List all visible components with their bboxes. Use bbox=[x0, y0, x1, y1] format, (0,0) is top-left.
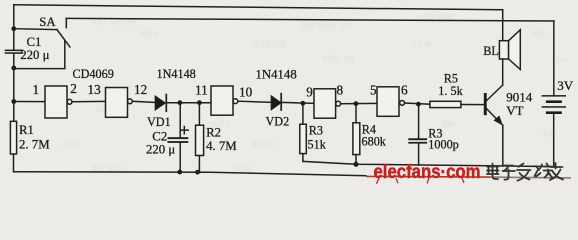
pin 6 bbox=[401, 83, 408, 98]
svg-text:8Wv: 8Wv bbox=[140, 29, 158, 39]
switch SA blade bbox=[57, 30, 70, 47]
svg-text:8W: 8W bbox=[442, 119, 456, 129]
capacitor C2 electrolytic plates bbox=[168, 137, 189, 143]
svg-text:W3A 8M: W3A 8M bbox=[252, 39, 286, 49]
svg-text:2. 7M: 2. 7M bbox=[19, 137, 50, 151]
resistor R2 body bbox=[196, 125, 204, 155]
label C2 bbox=[152, 130, 167, 144]
wire top rail T1 from left rail to speaker bbox=[14, 5, 503, 10]
wire bottom ground bus bbox=[14, 172, 367, 176]
capacitor C2 plus polarity mark bbox=[180, 127, 188, 134]
inverter U1D box pins 9-8 bbox=[314, 89, 336, 118]
svg-text:8A W: 8A W bbox=[412, 39, 434, 49]
wire speaker bottom to collector bbox=[502, 59, 504, 85]
op-amp inverter U1A box pins 1-2 bbox=[45, 86, 67, 118]
inverter U1E output bubble bbox=[400, 101, 405, 106]
svg-text:12: 12 bbox=[134, 82, 147, 97]
label VD1 bbox=[147, 115, 171, 129]
label CD4069 bbox=[73, 67, 114, 81]
value C1 220u bbox=[20, 48, 49, 62]
pin 10 bbox=[239, 84, 253, 99]
value R2 4.7M bbox=[206, 139, 237, 153]
wire left rail upper segment bbox=[13, 5, 15, 50]
wire switch blade to node below C1 bbox=[14, 41, 65, 68]
inverter U1E box pins 5-6 bbox=[377, 87, 399, 117]
svg-text:4. 7M: 4. 7M bbox=[206, 139, 237, 153]
label C1 bbox=[27, 35, 42, 49]
svg-text:W8: W8 bbox=[532, 29, 545, 39]
inverter U1D output bubble bbox=[336, 101, 341, 106]
wire U1B pin12 to diode VD1 bbox=[132, 101, 155, 102]
wire VD1 cathode to U1C pin11 bbox=[166, 102, 211, 104]
pin 9 bbox=[306, 85, 313, 100]
wire U1A pin2 to U1B pin13 bbox=[72, 100, 106, 102]
label 1N4148 first bbox=[157, 67, 196, 81]
value R3 51k bbox=[308, 138, 327, 152]
label battery 3V bbox=[557, 78, 574, 93]
junction node C2 bottom on bus bbox=[177, 170, 182, 175]
diode VD1 1N4148 bbox=[155, 95, 166, 112]
resistor R3 51k top lead bbox=[302, 103, 304, 124]
value 1000p bbox=[428, 138, 458, 152]
resistor R5 body bbox=[430, 101, 461, 107]
label switch SA bbox=[39, 15, 56, 29]
svg-text:8WA 3: 8WA 3 bbox=[252, 139, 277, 149]
pin 8 bbox=[337, 83, 344, 98]
resistor R1 body bbox=[10, 121, 16, 154]
junction node on rail at switch feed bbox=[11, 26, 16, 31]
svg-text:R3: R3 bbox=[309, 124, 323, 138]
svg-text:680k: 680k bbox=[362, 134, 387, 148]
svg-text:8w: 8w bbox=[556, 54, 568, 64]
diode VD2 1N4148 bbox=[271, 94, 281, 110]
wire VD2 cathode to U1D pin9 bbox=[281, 101, 314, 104]
label VD2 bbox=[266, 114, 290, 128]
transistor VT base bar bbox=[484, 93, 487, 115]
label transistor 9014 bbox=[506, 90, 533, 105]
svg-text:5: 5 bbox=[370, 83, 377, 98]
svg-text:220 μ: 220 μ bbox=[20, 48, 49, 62]
svg-text:VT: VT bbox=[506, 103, 523, 118]
value R5 1.5k bbox=[438, 84, 463, 98]
svg-text:M8 VA8: M8 VA8 bbox=[422, 13, 453, 23]
speaker BL driver box bbox=[499, 41, 508, 59]
switch SA fixed contact stub bbox=[65, 18, 67, 27]
capacitor C2 top lead bbox=[179, 103, 181, 138]
pin 1 bbox=[33, 82, 40, 97]
pin 13 bbox=[88, 82, 102, 97]
svg-text:C1: C1 bbox=[27, 35, 42, 49]
junction node R4 top bbox=[354, 101, 359, 106]
svg-text:R1: R1 bbox=[19, 123, 34, 137]
wire battery bottom lead bbox=[553, 114, 555, 167]
wire node A to gate U1A input pin 1 bbox=[14, 101, 45, 103]
svg-text:10: 10 bbox=[239, 84, 253, 99]
svg-text:8: 8 bbox=[337, 83, 344, 98]
resistor R3 51k body bbox=[300, 124, 307, 153]
junction node C3 top bbox=[416, 102, 421, 107]
label R4 bbox=[362, 123, 376, 137]
inverter U1A output bubble bbox=[67, 99, 72, 104]
svg-text:AW8: AW8 bbox=[62, 139, 81, 149]
svg-text:51k: 51k bbox=[308, 138, 327, 152]
label R5 bbox=[444, 72, 458, 86]
label speaker BL bbox=[483, 44, 499, 58]
capacitor C1 plates bbox=[5, 50, 24, 54]
resistor R4 680k body bbox=[353, 123, 360, 155]
junction node R3 top bbox=[301, 101, 306, 106]
svg-text:VD1: VD1 bbox=[147, 115, 171, 129]
label VT bbox=[506, 103, 523, 118]
junction node below C1 bbox=[11, 66, 16, 71]
watermark strike line bbox=[366, 176, 571, 178]
wire emitter to lower net bbox=[502, 125, 504, 166]
svg-text:1N4148: 1N4148 bbox=[157, 67, 196, 81]
svg-text:6: 6 bbox=[401, 83, 408, 98]
capacitor C3 bottom lead bbox=[418, 144, 420, 166]
pin 2 bbox=[70, 81, 77, 96]
pin 5 bbox=[370, 83, 377, 98]
resistor R4 680k bottom lead bbox=[355, 155, 357, 165]
junction node R2 top bbox=[197, 100, 202, 105]
inverter U1C output bubble bbox=[233, 99, 238, 104]
watermark elecfans.com bbox=[374, 162, 481, 184]
wire battery top lead bbox=[553, 21, 555, 95]
wire U1D pin8 to U1E pin5 bbox=[341, 102, 377, 104]
svg-text:220 μ: 220 μ bbox=[146, 142, 175, 156]
resistor R2 bottom lead bbox=[198, 156, 200, 173]
resistor R4 680k top lead bbox=[355, 104, 357, 123]
junction node at pin1 wire bbox=[11, 99, 16, 104]
svg-text:3V: 3V bbox=[557, 78, 574, 93]
svg-text:CD4069: CD4069 bbox=[73, 67, 114, 81]
svg-text:1. 5k: 1. 5k bbox=[438, 84, 463, 98]
svg-text:9: 9 bbox=[306, 85, 313, 100]
pin 12 bbox=[134, 82, 147, 97]
junction node R4 bottom on lower net bbox=[354, 162, 359, 167]
value C2 220u bbox=[146, 142, 175, 156]
junction node C2 top bbox=[178, 100, 183, 105]
wire top rail T2 from switch to battery positive bbox=[66, 18, 554, 21]
watermark chinese characters bbox=[487, 163, 563, 181]
svg-text:MV8 A3: MV8 A3 bbox=[322, 54, 354, 64]
svg-text:BL: BL bbox=[483, 44, 499, 58]
svg-text:SA: SA bbox=[39, 15, 56, 29]
wire speaker top lead bbox=[502, 10, 504, 41]
wire R1 bottom lead to ground bus bbox=[13, 154, 15, 172]
svg-text:1N4148: 1N4148 bbox=[256, 67, 297, 81]
svg-text:2: 2 bbox=[70, 81, 77, 96]
label R1 bbox=[19, 123, 34, 137]
speaker BL cone bbox=[509, 30, 521, 70]
wire lower net from R3 to battery negative bbox=[303, 161, 554, 166]
svg-text:1000p: 1000p bbox=[428, 138, 458, 152]
battery GB 3V plates bbox=[542, 95, 566, 114]
capacitor C2 bottom lead bbox=[179, 143, 181, 172]
wire left rail lower segment bbox=[13, 54, 15, 121]
wire U1E pin6 to resistor R5 bbox=[405, 103, 431, 104]
label R3 capacitor bbox=[428, 127, 442, 141]
svg-text:A8: A8 bbox=[542, 129, 553, 139]
capacitor C3 1000p top lead bbox=[418, 104, 420, 138]
svg-text:11: 11 bbox=[195, 83, 208, 98]
wire R5 to transistor base bbox=[461, 104, 484, 106]
label 1N4148 second bbox=[256, 67, 297, 81]
label R2 bbox=[206, 126, 221, 140]
value R1 2.7M bbox=[19, 137, 50, 151]
svg-text:R2: R2 bbox=[206, 126, 221, 140]
inverter U1B output bubble bbox=[127, 99, 132, 104]
junction node R2 bottom on bus bbox=[195, 170, 200, 175]
pin 11 bbox=[195, 83, 208, 98]
inverter U1C box pins 11-10 bbox=[211, 86, 233, 115]
svg-text:13: 13 bbox=[88, 82, 102, 97]
label R3 bbox=[309, 124, 323, 138]
transistor VT emitter lead with arrow bbox=[487, 109, 503, 126]
wire U1C pin10 to diode VD2 bbox=[238, 101, 272, 102]
value R4 680k bbox=[362, 134, 387, 148]
resistor R2 top lead bbox=[198, 103, 200, 125]
svg-text:VD2: VD2 bbox=[266, 114, 290, 128]
wire switch feed from rail bbox=[14, 28, 57, 31]
svg-text:elecfans·com: elecfans·com bbox=[374, 162, 481, 183]
transistor VT collector lead bbox=[487, 85, 503, 101]
capacitor C3 1000p plates bbox=[408, 138, 427, 143]
svg-text:iW8 MAV 3W: iW8 MAV 3W bbox=[300, 21, 353, 31]
svg-text:1: 1 bbox=[33, 82, 40, 97]
resistor R3 51k bottom lead bbox=[302, 154, 304, 162]
inverter U1B box pins 13-12 bbox=[106, 88, 128, 118]
